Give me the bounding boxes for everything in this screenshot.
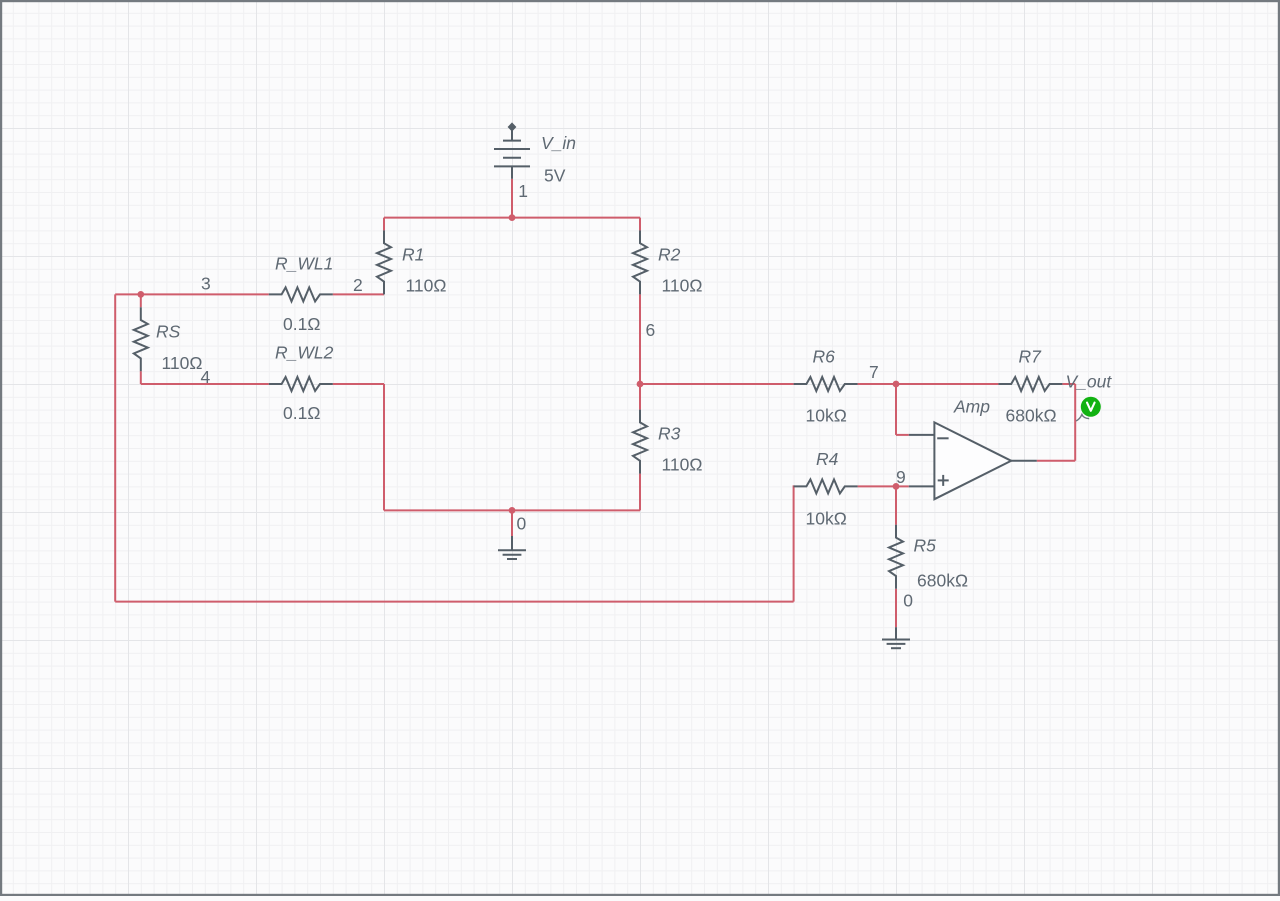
wire : R_WL2 right segment <box>333 383 384 385</box>
resistor R5 <box>889 525 903 589</box>
svg-text:10kΩ: 10kΩ <box>806 406 847 426</box>
svg-text:R1: R1 <box>402 245 424 265</box>
wire : R6 to node 7 <box>858 383 896 385</box>
wire : R2 top stub <box>639 218 641 231</box>
ground below R5 <box>882 627 910 648</box>
resistor R6 <box>794 377 858 391</box>
svg-text:R4: R4 <box>816 449 839 469</box>
svg-text:110Ω: 110Ω <box>662 455 703 475</box>
wire : R3 bottom stub <box>639 474 641 511</box>
svg-text:9: 9 <box>896 467 906 487</box>
svg-text:RS: RS <box>156 321 181 341</box>
wire : inverting input stub <box>896 434 909 436</box>
wire : output vertical <box>1074 384 1076 461</box>
svg-text:680kΩ: 680kΩ <box>917 570 968 590</box>
wire : op-amp output segment <box>1037 460 1075 462</box>
wire : R4 left riser <box>793 485 795 601</box>
svg-text:Amp: Amp <box>953 397 990 417</box>
svg-text:R_WL1: R_WL1 <box>275 254 333 274</box>
wire : R7 to output corner <box>1062 383 1075 385</box>
wire : RS bottom stub <box>140 371 142 384</box>
resistor R_WL2 <box>269 377 333 391</box>
svg-text:0.1Ω: 0.1Ω <box>283 403 320 423</box>
svg-text:680kΩ: 680kΩ <box>1006 406 1057 426</box>
op-amp U1 Amp <box>909 422 1037 499</box>
node 9 junction dot <box>893 483 900 490</box>
svg-text:0.1Ω: 0.1Ω <box>283 314 320 334</box>
wire : node 3 rail <box>115 293 269 295</box>
resistor R_WL1 <box>269 287 333 301</box>
svg-text:4: 4 <box>201 367 211 387</box>
node 0 junction dot <box>509 507 516 514</box>
resistor R2 <box>633 230 647 294</box>
wire : non-inverting input stub <box>896 485 909 487</box>
wire : top rail <box>384 217 640 219</box>
svg-text:110Ω: 110Ω <box>662 275 703 295</box>
wire : bottom long rail <box>115 601 793 603</box>
svg-text:7: 7 <box>869 362 879 382</box>
svg-text:R_WL2: R_WL2 <box>275 343 334 363</box>
voltage probe V at V_out <box>1076 397 1101 421</box>
node 3 junction dot <box>137 291 144 298</box>
resistor R1 <box>377 230 391 294</box>
node 6 junction dot <box>637 381 644 388</box>
wire : ground stub node 0 <box>511 510 513 536</box>
wire : node 7 down to inverting input <box>895 384 897 435</box>
svg-text:V_in: V_in <box>541 133 576 153</box>
battery V_in <box>494 122 530 178</box>
wire : R4 to node 9 <box>858 485 896 487</box>
svg-text:3: 3 <box>201 274 211 294</box>
wire : R_WL1 to node 2 <box>333 293 384 295</box>
node 1 junction dot <box>509 214 516 221</box>
resistor R7 <box>998 377 1062 391</box>
svg-text:110Ω: 110Ω <box>406 275 447 295</box>
svg-text:5V: 5V <box>544 166 566 186</box>
svg-text:1: 1 <box>518 181 528 201</box>
svg-text:2: 2 <box>353 275 363 295</box>
wire : riser x384 down to node 0 rail <box>383 384 385 510</box>
svg-text:10kΩ: 10kΩ <box>806 509 847 529</box>
resistor RS <box>134 307 148 371</box>
wire : R5 bottom stub node 0 <box>895 589 897 627</box>
resistor R4 <box>794 479 858 493</box>
wire : node 4 rail <box>141 383 269 385</box>
svg-text:R2: R2 <box>658 245 681 265</box>
svg-text:R7: R7 <box>1019 347 1043 367</box>
svg-text:R6: R6 <box>813 347 836 367</box>
resistor R3 <box>633 410 647 474</box>
wire : node 7 to R7 <box>896 383 998 385</box>
svg-text:V_out: V_out <box>1066 372 1113 392</box>
svg-text:R5: R5 <box>914 536 937 556</box>
svg-text:6: 6 <box>646 320 656 340</box>
wire : R5 top stub <box>895 486 897 524</box>
wire : left riser <box>114 294 116 601</box>
svg-text:0: 0 <box>517 513 527 533</box>
svg-text:R3: R3 <box>658 424 681 444</box>
wire : R1 top stub <box>383 218 385 231</box>
ground at node 0 <box>498 536 526 559</box>
wire : R3 top stub <box>639 384 641 410</box>
wire : RS top stub <box>140 294 142 307</box>
wire : node 0 rail <box>384 509 640 511</box>
svg-text:0: 0 <box>903 590 913 610</box>
wire : battery bottom stub node 1 <box>511 179 513 218</box>
node 7 junction dot <box>893 381 900 388</box>
svg-text:110Ω: 110Ω <box>162 353 203 373</box>
wire : node 6 rail to R6 <box>640 383 794 385</box>
wire : R2 bottom to node 6 <box>639 294 641 384</box>
